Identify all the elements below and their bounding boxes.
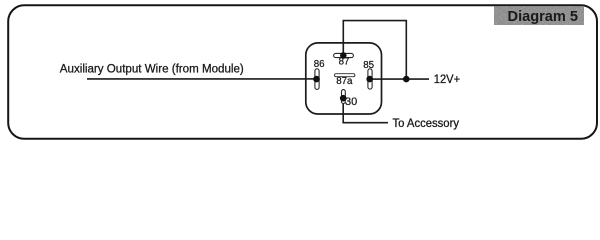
svg-text:86: 86 [314, 59, 325, 70]
svg-text:Auxiliary Output Wire (from Mo: Auxiliary Output Wire (from Module) [60, 62, 244, 76]
svg-text:85: 85 [363, 60, 374, 71]
svg-text:To Accessory: To Accessory [393, 117, 460, 130]
svg-text:87: 87 [339, 57, 350, 68]
svg-text:30: 30 [345, 96, 357, 108]
svg-text:Diagram 5: Diagram 5 [508, 9, 579, 25]
svg-text:87a: 87a [336, 76, 353, 87]
svg-text:12V+: 12V+ [434, 72, 460, 86]
